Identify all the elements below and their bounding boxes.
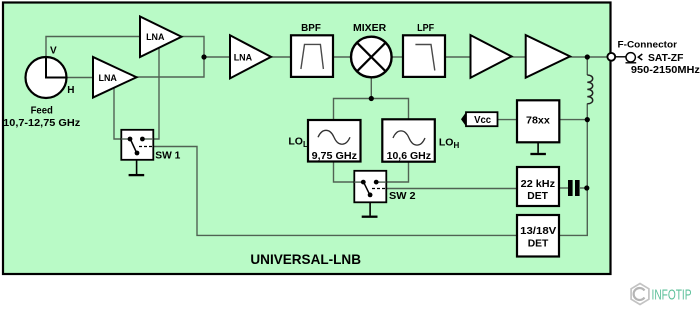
wire LPF to amp1 (445, 56, 471, 58)
inductor L1 (587, 75, 592, 104)
svg-text:LPF: LPF (417, 22, 434, 34)
junction dot at output line (585, 54, 590, 59)
svg-text:MIXER: MIXER (353, 22, 387, 34)
svg-text:Vcc: Vcc (474, 114, 491, 126)
wire lower LNA bias to SW1 (114, 87, 130, 139)
LNA 3 amplifier (230, 35, 271, 78)
svg-text:950-2150MHz: 950-2150MHz (631, 64, 700, 76)
wire upper LNA output to junction (181, 37, 204, 58)
22 kHz detector (517, 167, 559, 206)
H polarisation probe (45, 77, 67, 79)
wire V-probe to upper LNA (46, 37, 140, 78)
wire main DC line terminal to inductor (586, 57, 588, 75)
local oscillator LO-L 9,75 GHz (308, 120, 361, 162)
bandpass filter BPF (291, 35, 333, 77)
svg-text:22 kHz: 22 kHz (521, 178, 555, 190)
svg-text:LNA: LNA (146, 32, 165, 43)
LNB enclosure box (3, 3, 611, 275)
wire inductor down to 78xx node and DET node (559, 104, 587, 236)
junction dot LO feed (369, 96, 374, 101)
wire LO junction split to both oscillators (334, 99, 409, 121)
wire SW2 output to 22kHz DET (386, 188, 517, 190)
svg-text:10,6 GHz: 10,6 GHz (387, 150, 431, 162)
IF amplifier 2 (526, 35, 570, 78)
svg-text:BPF: BPF (301, 22, 321, 34)
svg-text:10,7-12,75 GHz: 10,7-12,75 GHz (3, 117, 80, 129)
13/18V detector (517, 215, 559, 257)
svg-text:9,75 GHz: 9,75 GHz (312, 150, 357, 162)
wire BPF to mixer (333, 56, 351, 58)
wire capacitor to main DC line (580, 187, 587, 189)
junction dot after LNAs (201, 54, 206, 59)
wire upper LNA bias to SW1 (142, 48, 159, 140)
wire amp2 to output terminal (570, 56, 608, 58)
wire H-probe to lower LNA (46, 77, 93, 79)
wire LO-L to SW2 (334, 162, 364, 183)
junction dot at 78xx output (585, 117, 590, 122)
IF amplifier 1 (471, 35, 512, 78)
switch SW1 (121, 130, 153, 160)
V polarisation probe (45, 57, 47, 79)
wire 78xx to main DC line (559, 119, 587, 121)
Vcc supply tag (461, 112, 498, 126)
local oscillator LO-H 10,6 GHz (382, 119, 435, 162)
svg-text:UNIVERSAL-LNB: UNIVERSAL-LNB (250, 252, 361, 267)
output terminal circle (607, 53, 615, 61)
wire Vcc to 78xx (498, 119, 518, 121)
svg-text:78xx: 78xx (526, 115, 550, 127)
wire SW1 output to 13/18V DET (153, 147, 517, 236)
wire LNA3 to BPF (270, 56, 291, 58)
junction dot at capacitor (584, 185, 589, 190)
F-connector symbol (616, 53, 643, 63)
ground below SW1 (129, 160, 145, 175)
lowpass filter LPF (403, 35, 445, 77)
coupling capacitor C1 (568, 180, 580, 196)
mixer (351, 37, 392, 78)
wire mixer to LPF (392, 56, 403, 58)
svg-text:H: H (67, 85, 74, 96)
wire amp1 to amp2 (511, 56, 526, 58)
svg-text:SW 2: SW 2 (389, 190, 416, 202)
wire 22kHz DET to coupling capacitor (559, 187, 568, 189)
svg-text:DET: DET (527, 190, 548, 202)
svg-text:LNA: LNA (99, 73, 118, 84)
svg-text:F-Connector: F-Connector (618, 39, 678, 50)
wire junction to LNA3 (204, 56, 230, 58)
wire LO-H to SW2 (376, 162, 408, 183)
svg-text:DET: DET (528, 237, 549, 249)
svg-text:SW 1: SW 1 (155, 150, 180, 162)
wire lower LNA output to junction (136, 57, 204, 77)
ground below SW2 (362, 202, 378, 216)
LNA V (upper) amplifier (140, 17, 182, 58)
ground below 78xx (530, 142, 546, 154)
feed horn antenna (26, 57, 67, 98)
svg-text:INFOTIP: INFOTIP (652, 287, 692, 304)
svg-text:13/18V: 13/18V (520, 225, 556, 237)
switch SW2 (354, 171, 386, 203)
svg-text:LNA: LNA (234, 53, 253, 64)
LNA H (lower) amplifier (93, 57, 137, 98)
svg-text:SAT-ZF: SAT-ZF (648, 52, 684, 64)
svg-text:Feed: Feed (31, 105, 53, 116)
wire mixer to LO junction (370, 78, 372, 99)
INFOTIP logo hexagon (631, 284, 649, 305)
svg-text:V: V (50, 45, 57, 56)
voltage regulator 78xx (517, 100, 559, 142)
